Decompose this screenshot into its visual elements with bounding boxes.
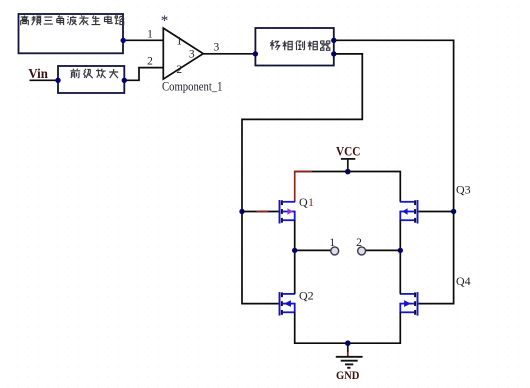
port/node 2 (open circle): [358, 247, 366, 255]
svg-text:3: 3: [189, 49, 195, 61]
svg-text:GND: GND: [336, 368, 360, 382]
junction phase inverter output A: [331, 38, 336, 43]
wire top rail (VCC bus): [295, 171, 401, 173]
block U_highfreq "高频三角波发生电路" (HF triangle-wave generator): [19, 14, 125, 53]
svg-text:VCC: VCC: [336, 145, 361, 159]
svg-text:2: 2: [356, 237, 362, 249]
label Q4: [456, 274, 471, 288]
pin number 1 (outside): [147, 28, 153, 40]
svg-text:1: 1: [176, 36, 182, 48]
wire Q1 source to mid-left node: [294, 220, 296, 250]
pin number 3 (outside, above output wire): [214, 42, 220, 54]
wire to output port 1: [295, 249, 331, 251]
power symbol VCC: [336, 145, 361, 172]
svg-text:1: 1: [308, 195, 314, 209]
op-amp designator asterisk *: [161, 13, 169, 29]
junction mid-right node: [398, 248, 403, 253]
wire Q3 gate stub: [418, 211, 453, 213]
label Q3: [456, 183, 471, 197]
wire mid-right node to Q4 drain: [399, 250, 401, 294]
pin name 1 (inside): [176, 36, 182, 48]
svg-text:2: 2: [176, 64, 182, 76]
wire Q2 source to bottom rail: [295, 312, 348, 343]
svg-text:Q4: Q4: [456, 274, 471, 288]
wire net2: preamp output to opamp pin 2: [124, 68, 163, 81]
block U_preamp "前级放大" (pre-amplifier): [58, 66, 124, 93]
wire netA: inverter output A to right gate rail (Q3/Q4 gates): [334, 40, 454, 303]
label Q2: [299, 289, 314, 303]
junction on phase inverter left edge: [253, 51, 258, 56]
label 2 (port): [356, 237, 362, 249]
label Q1: [299, 195, 314, 209]
wire Vin input: [30, 79, 59, 81]
svg-text:Q3: Q3: [456, 183, 471, 197]
junction on block1 right edge: [121, 38, 126, 43]
ground symbol GND: [336, 343, 363, 382]
junction phase inverter output B: [331, 51, 336, 56]
svg-text:Component_1: Component_1: [162, 80, 223, 94]
junction left rail / Q1 gate: [239, 209, 244, 214]
junction on preamp left edge: [55, 78, 60, 83]
block U_phaseinv "移相倒相器" (phase-shift inverter): [255, 28, 333, 66]
svg-text:Vin: Vin: [28, 66, 48, 81]
transistor Q2 (NMOS, low side left): [280, 292, 296, 316]
wire Q3 source to mid-right node: [399, 220, 401, 250]
label 1 (port): [329, 237, 335, 249]
transistor Q3 (PMOS, high side right): [400, 200, 418, 224]
label Component_1: [162, 80, 223, 94]
wire net1: block1 output to opamp pin 1: [122, 39, 163, 41]
wire Q4 source to bottom rail: [348, 312, 401, 343]
wire mid-left node to Q2 drain: [294, 250, 296, 294]
junction right rail / Q3 gate: [451, 209, 456, 214]
wire Q1 drain riser (selected, red): [294, 171, 296, 202]
pin number 2 (outside): [147, 55, 153, 67]
wire Q1 gate stub: [242, 211, 279, 213]
svg-text:1: 1: [329, 237, 335, 249]
wire net3: opamp output to phase inverter: [203, 53, 255, 55]
svg-text:3: 3: [214, 42, 220, 54]
svg-text:Q: Q: [299, 195, 308, 209]
wire to output port 2: [366, 249, 401, 251]
svg-text:1: 1: [147, 28, 153, 40]
junction mid-left node: [292, 248, 297, 253]
junction on preamp right edge: [122, 78, 127, 83]
transistor Q1 (PMOS, high side left): [280, 200, 296, 224]
junction GND / bottom rail: [345, 340, 351, 346]
svg-text:2: 2: [147, 55, 153, 67]
svg-text:*: *: [161, 13, 169, 29]
wire Q3 drain riser: [399, 171, 401, 202]
net label Vin: [28, 66, 48, 81]
junction VCC / top rail: [345, 169, 351, 175]
port/node 1 (open circle): [331, 247, 339, 255]
pin name 3 (inside, output): [189, 49, 195, 61]
op-amp U1 Component_1 triangle: [163, 28, 203, 79]
svg-text:Q2: Q2: [299, 289, 314, 303]
wire netB: inverter output B to left gate rail (Q1/Q2 gates): [242, 54, 362, 304]
pin name 2 (inside): [176, 64, 182, 76]
transistor Q4 (NMOS, low side right): [400, 292, 418, 316]
